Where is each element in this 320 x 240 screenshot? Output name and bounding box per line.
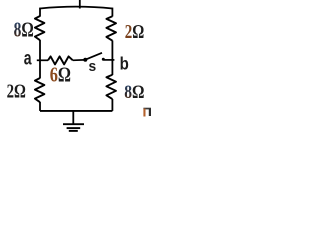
cropped text fragment (Cyrillic p) at right edge — [143, 108, 151, 110]
resistor R4 8ohm bottom-right — [106, 75, 116, 99]
ground stub — [72, 111, 74, 124]
wire middle to switch — [73, 59, 84, 61]
wire switch to node b — [104, 59, 115, 61]
svg-text:s: s — [89, 59, 97, 76]
ground bar 2 — [67, 127, 81, 129]
svg-text:a: a — [24, 48, 32, 70]
wire top center stub — [79, 0, 81, 9]
svg-text:6Ω: 6Ω — [50, 64, 71, 88]
wire left vertical lower — [39, 102, 41, 111]
svg-text:2Ω: 2Ω — [125, 20, 144, 43]
switch left terminal dot — [83, 58, 87, 62]
svg-text:8Ω: 8Ω — [124, 82, 144, 103]
ground bar 3 — [69, 130, 78, 132]
wire right vertical lower — [111, 99, 113, 111]
wire left vertical middle — [39, 40, 41, 78]
svg-text:8Ω: 8Ω — [14, 18, 34, 42]
wire top horizontal — [40, 7, 112, 9]
resistor R5 6ohm middle — [48, 56, 73, 64]
wire left vertical upper — [39, 8, 41, 17]
resistor R3 2ohm bottom-left — [35, 78, 45, 102]
ground bar 1 — [63, 123, 84, 125]
svg-text:2Ω: 2Ω — [7, 80, 26, 103]
resistor R2 2ohm top-right — [106, 16, 116, 40]
wire middle left segment — [37, 59, 48, 61]
svg-text:b: b — [120, 55, 129, 74]
resistor R1 8ohm top-left — [35, 16, 45, 40]
switch right terminal dot — [102, 58, 105, 61]
wire bottom horizontal — [40, 110, 112, 112]
switch blade — [87, 53, 103, 59]
wire right vertical upper — [111, 8, 113, 17]
wire right vertical middle — [111, 41, 113, 76]
